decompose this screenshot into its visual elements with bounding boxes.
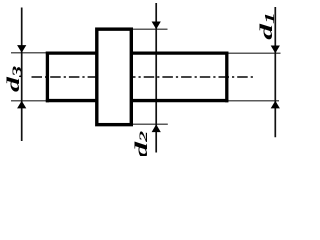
shaft top edge left segment	[46, 51, 98, 54]
boss (large diameter collar, thick rectangle)	[97, 29, 132, 125]
dimension line d1	[274, 7, 276, 137]
shaft bottom edge right segment	[130, 99, 229, 102]
arrowhead d1 bottom	[271, 101, 280, 109]
arrowhead d2 bottom	[152, 124, 161, 132]
arrowhead d1 top	[271, 46, 280, 54]
shaft top edge right segment	[130, 51, 229, 54]
dimension line d3	[21, 8, 23, 142]
arrowhead d3 top	[17, 45, 26, 53]
extension line d3 bottom	[11, 100, 46, 102]
arrowhead d3 bottom	[17, 101, 26, 109]
extension line d1 bottom	[228, 100, 280, 102]
shaft left edge	[46, 52, 49, 103]
extension line d1 top	[228, 52, 281, 54]
extension line d2 top	[132, 28, 168, 30]
extension line d2 bottom	[132, 123, 168, 125]
extension line d3 top	[11, 52, 46, 54]
arrowhead d2 top	[152, 22, 161, 30]
shaft right edge	[225, 52, 228, 103]
centerline (dash-dot shaft axis)	[32, 76, 254, 78]
dimension line d2	[155, 3, 157, 153]
shaft body outline (small diameter, thick lines)	[46, 52, 228, 103]
shaft bottom edge left segment	[46, 99, 98, 102]
